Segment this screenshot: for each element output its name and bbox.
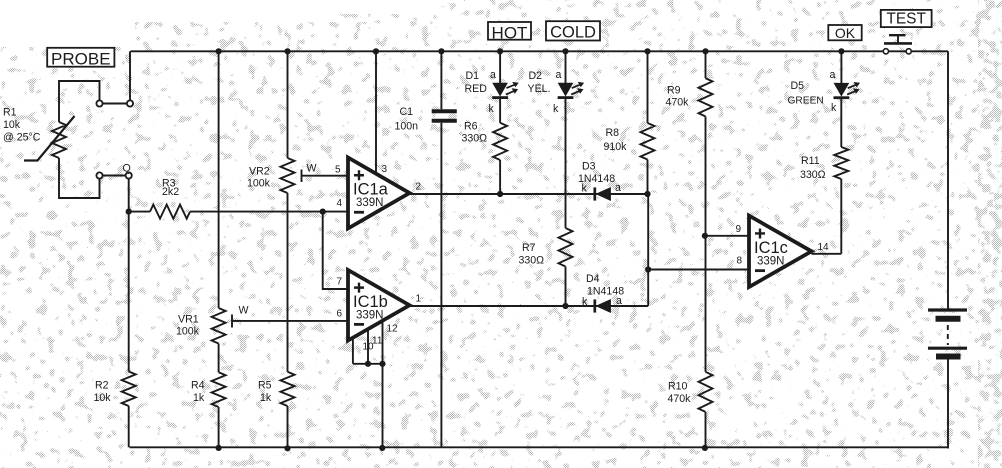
svg-text:R10: R10 (668, 381, 688, 393)
svg-text:100k: 100k (176, 326, 200, 338)
svg-text:D5: D5 (791, 80, 805, 92)
svg-text:k: k (582, 183, 588, 195)
svg-text:PROBE: PROBE (51, 49, 111, 68)
svg-text:VR1: VR1 (178, 314, 199, 326)
svg-text:14: 14 (818, 242, 830, 253)
svg-text:a: a (490, 69, 496, 81)
svg-text:IC1b: IC1b (353, 293, 388, 311)
svg-text:TEST: TEST (886, 11, 926, 28)
svg-text:2: 2 (416, 182, 422, 193)
svg-text:R2: R2 (95, 380, 109, 392)
svg-text:339N: 339N (356, 309, 384, 321)
svg-text:1k: 1k (193, 392, 205, 404)
svg-text:R6: R6 (464, 121, 478, 133)
svg-text:R11: R11 (801, 155, 820, 167)
svg-text:R9: R9 (667, 85, 681, 97)
svg-text:R5: R5 (258, 380, 272, 392)
svg-text:IC1a: IC1a (353, 181, 389, 199)
svg-text:a: a (615, 182, 621, 194)
svg-text:1: 1 (416, 294, 422, 305)
svg-text:5: 5 (335, 165, 341, 176)
svg-text:330Ω: 330Ω (519, 255, 545, 267)
svg-text:330Ω: 330Ω (800, 169, 826, 181)
svg-text:11: 11 (372, 336, 383, 347)
svg-text:R8: R8 (606, 127, 620, 139)
svg-text:IC1c: IC1c (754, 239, 788, 257)
svg-text:D3: D3 (582, 161, 596, 173)
svg-text:VR2: VR2 (249, 166, 270, 178)
svg-text:8: 8 (737, 256, 743, 267)
svg-text:k: k (831, 102, 837, 114)
svg-text:Q: Q (123, 163, 131, 175)
svg-text:k: k (489, 103, 495, 115)
svg-text:2k2: 2k2 (162, 186, 179, 198)
svg-text:470k: 470k (668, 393, 692, 405)
svg-text:D2: D2 (529, 70, 543, 82)
svg-text:3: 3 (382, 164, 388, 175)
svg-text:6: 6 (337, 309, 343, 320)
svg-text:100k: 100k (247, 178, 271, 190)
svg-text:a: a (830, 69, 836, 81)
svg-text:7: 7 (337, 277, 343, 288)
svg-text:339N: 339N (757, 255, 785, 267)
svg-text:330Ω: 330Ω (462, 133, 488, 145)
svg-text:GREEN: GREEN (788, 96, 824, 107)
svg-text:R4: R4 (191, 380, 205, 392)
svg-text:10k: 10k (94, 392, 112, 404)
svg-text:@ 25°C: @ 25°C (3, 132, 41, 144)
svg-text:R1: R1 (3, 107, 17, 119)
svg-text:R7: R7 (522, 242, 536, 254)
svg-text:W: W (239, 305, 249, 317)
svg-text:k: k (553, 103, 559, 115)
svg-text:a: a (556, 69, 562, 81)
svg-text:OK: OK (835, 25, 856, 41)
svg-text:D1: D1 (466, 70, 480, 82)
svg-text:HOT: HOT (492, 23, 528, 42)
svg-text:k: k (582, 296, 588, 308)
svg-text:12: 12 (387, 324, 399, 335)
svg-text:a: a (616, 295, 622, 307)
svg-text:YEL.: YEL. (528, 83, 551, 95)
svg-text:1k: 1k (260, 392, 272, 404)
svg-text:C1: C1 (400, 106, 414, 118)
svg-text:W: W (307, 163, 317, 175)
svg-text:RED: RED (465, 83, 488, 95)
svg-text:339N: 339N (356, 197, 384, 209)
svg-text:910k: 910k (604, 141, 628, 153)
svg-text:4: 4 (337, 198, 343, 209)
svg-text:100n: 100n (395, 121, 419, 133)
svg-text:COLD: COLD (550, 23, 596, 41)
svg-text:470k: 470k (666, 97, 690, 109)
svg-text:D4: D4 (586, 273, 600, 285)
svg-text:9: 9 (736, 224, 742, 235)
svg-text:10k: 10k (3, 119, 21, 131)
